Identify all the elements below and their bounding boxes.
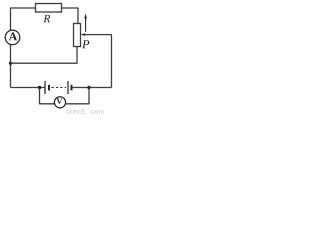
wiper arrow wire to right bbox=[81, 33, 112, 36]
svg-text:uten5. com: uten5. com bbox=[66, 109, 105, 115]
node junction battery left bbox=[38, 86, 41, 89]
slider direction arrow (up) bbox=[84, 13, 87, 31]
ammeter label A bbox=[9, 32, 17, 40]
wire top-left horizontal bbox=[11, 8, 36, 31]
label P bbox=[82, 40, 89, 48]
battery dashed middle (more cells) bbox=[52, 87, 67, 89]
battery cell 2 short plate bbox=[71, 85, 73, 91]
voltmeter V bbox=[54, 97, 65, 108]
wire voltmeter branch left bbox=[40, 88, 55, 104]
wire top-right horizontal and down to pot bbox=[62, 8, 79, 24]
node junction left (pot bottom return) bbox=[9, 62, 12, 65]
voltmeter label V bbox=[56, 98, 62, 103]
label R bbox=[43, 15, 50, 22]
potentiometer P body bbox=[74, 24, 81, 47]
resistor R bbox=[36, 4, 62, 13]
wire bottom right segment bbox=[72, 87, 112, 89]
battery cell 1 short plate bbox=[48, 85, 50, 91]
wire left vertical below ammeter bbox=[10, 44, 12, 87]
ammeter A bbox=[5, 30, 20, 45]
wire voltmeter branch right bbox=[65, 88, 89, 104]
wire pot bottom to left junction bbox=[11, 47, 78, 64]
battery cell 2 long plate bbox=[67, 81, 69, 94]
wire bottom left segment bbox=[11, 87, 46, 89]
wire right vertical bbox=[111, 35, 113, 88]
battery cell 1 long plate bbox=[44, 81, 46, 94]
node junction battery right bbox=[87, 86, 90, 89]
